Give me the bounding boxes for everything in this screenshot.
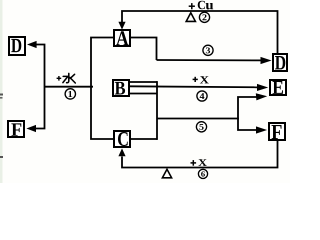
wire C right stub to bracket [131, 138, 157, 140]
box D left [9, 37, 25, 55]
wire reaction 5 from bracket toward split [157, 118, 239, 120]
wire reaction 4 from B to E [130, 86, 258, 87]
label + water [57, 73, 76, 83]
arrowhead into A top [118, 22, 125, 30]
label circled 2 [199, 12, 209, 22]
arrowhead into F left [26, 125, 36, 132]
wire top feedback from D right up over to A [122, 11, 278, 54]
label circled 4 [197, 91, 207, 101]
arrowhead into F right [256, 126, 267, 133]
wire from A right down to reaction 3 line [131, 38, 157, 61]
wire bottom feedback from F right to C [122, 141, 278, 168]
label + Cu [189, 1, 213, 10]
label + X bottom [191, 159, 207, 166]
label circled 5 [196, 122, 206, 132]
box C [114, 131, 130, 147]
box F left [8, 121, 24, 137]
box F right [269, 123, 285, 140]
arrowhead into E lower [256, 93, 267, 100]
wire split vertical feeding E and F [238, 97, 257, 130]
arrowhead into D right [261, 57, 272, 64]
box A [114, 30, 130, 46]
wire B upper stub to right bracket [130, 81, 157, 83]
arrowhead into D left [27, 41, 37, 48]
wire right bracket vertical joining B and C [156, 81, 158, 140]
arrowhead into C bottom [118, 148, 125, 156]
label circled 6 [198, 169, 207, 178]
label circled 1 [65, 89, 75, 99]
label circled 3 [203, 45, 213, 55]
box D right [273, 54, 287, 71]
box E right [270, 80, 286, 95]
wire B lower stub to right bracket [130, 93, 157, 95]
wire splitting left to D and F [36, 45, 45, 129]
background scan tint [0, 0, 290, 183]
wire left bracket joining A B C [91, 38, 113, 140]
wire reaction 1 +water line into B [45, 86, 94, 88]
arrowhead into E upper [257, 84, 268, 91]
label heat triangle bottom [162, 169, 171, 178]
label + X middle [193, 76, 209, 83]
box B [113, 80, 129, 96]
label heat triangle top [186, 13, 195, 22]
wire reaction 3 into D right [157, 59, 262, 61]
